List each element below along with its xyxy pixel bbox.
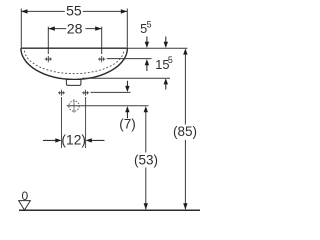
- dim 28 arrow left: [48, 26, 55, 30]
- basin outer bowl curve: [21, 48, 128, 79]
- dim 28 extension line right: [101, 27, 103, 54]
- tap/fixing hole right crosshair: [98, 56, 105, 62]
- dim 53 up arrow: [144, 106, 148, 112]
- dim 7 down arrow: [126, 81, 128, 88]
- dim 15.5 down arrow: [165, 37, 167, 44]
- dim 28 extension line left: [47, 27, 49, 54]
- svg-text:28: 28: [67, 21, 83, 37]
- dim 5.5 down arrow: [146, 37, 148, 44]
- dim 85 line upper: [184, 54, 186, 125]
- svg-text:5: 5: [168, 55, 173, 65]
- dim 12 extension line right: [85, 97, 87, 148]
- svg-text:55: 55: [66, 2, 82, 18]
- rim level extension line to right: [127, 47, 187, 49]
- dim 15.5 up arrow: [164, 78, 168, 84]
- drain trap cover rectangle: [66, 80, 81, 86]
- dim 55 line: [21, 10, 65, 12]
- dim 28 arrow right: [95, 26, 102, 30]
- drain center line horizontal: [67, 105, 149, 107]
- fixing hole level line: [107, 58, 152, 60]
- dim 55 arrow left: [21, 9, 28, 13]
- pedestal hole level line: [91, 91, 131, 93]
- svg-text:(12): (12): [61, 132, 86, 147]
- tap/fixing hole left crosshair: [45, 56, 52, 62]
- dim 85 down arrow: [183, 203, 187, 209]
- svg-text:(7): (7): [119, 117, 136, 132]
- dim 85 line lower: [184, 140, 186, 210]
- svg-text:5: 5: [147, 20, 152, 30]
- floor line: [19, 209, 200, 211]
- datum triangle: [19, 201, 31, 211]
- drain center cross vertical: [73, 99, 75, 112]
- dim 12 extension line left: [61, 97, 63, 148]
- apron bottom level line: [82, 77, 170, 79]
- dim 55 arrow right: [121, 9, 128, 13]
- svg-text:(85): (85): [173, 124, 197, 139]
- dim 5.5 up arrow: [145, 59, 149, 65]
- svg-text:(53): (53): [134, 153, 158, 168]
- basin rim line: [21, 47, 128, 49]
- dim 7 up arrow: [125, 106, 129, 112]
- dim 53 line upper: [145, 112, 147, 153]
- dim 55 extension line left: [20, 9, 22, 48]
- dim 53 line lower: [145, 168, 147, 210]
- dim 28 line: [48, 28, 66, 30]
- basin inner bowl dashed curve: [25, 51, 124, 74]
- pedestal fixing hole left crosshair: [58, 90, 65, 96]
- dim 12 left arrow: [43, 139, 57, 141]
- dim 55 extension line right: [126, 9, 128, 48]
- dim 12 right arrow: [86, 138, 92, 142]
- pedestal fixing hole right crosshair: [82, 90, 89, 96]
- drain circle dashed: [69, 101, 79, 111]
- dim 53 down arrow: [144, 203, 148, 209]
- dim 85 up arrow: [183, 48, 187, 54]
